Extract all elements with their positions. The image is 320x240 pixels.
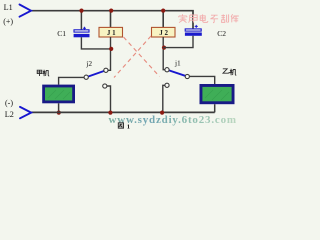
junction dot J2/top rail <box>161 9 165 13</box>
capacitor C2 (electrolytic, blue) <box>185 25 202 36</box>
svg-text:J 2: J 2 <box>159 29 168 37</box>
machine B box (乙机, green) <box>200 84 235 104</box>
junction dot J1/top rail <box>109 9 113 13</box>
svg-text:L1: L1 <box>4 3 13 12</box>
switch j2 lever (blue) <box>88 71 104 77</box>
svg-text:C1: C1 <box>57 29 66 38</box>
svg-text:1: 1 <box>127 123 130 130</box>
junction node B (C2/J2/j1) <box>162 46 166 50</box>
mechanical link J1 to j1 (red dashed) <box>124 37 160 77</box>
wire j1 lower contact to bottom rail <box>163 85 165 112</box>
caption 图 1 (figure 1) drawn glyph <box>118 123 130 130</box>
wire bottom rail (-) from L2 to machine B lead <box>31 111 215 113</box>
wire J2 top lead <box>162 11 164 28</box>
svg-text:L2: L2 <box>5 110 14 119</box>
switch j2 common contact <box>84 75 88 79</box>
terminal L1 (blue chevron) <box>20 5 32 17</box>
svg-text:C2: C2 <box>217 29 226 38</box>
junction dot j2 lower / bottom rail <box>108 111 112 115</box>
machine A box (甲机, green) <box>42 85 75 104</box>
wire J2 bottom lead through node B to switch j1 top contact <box>163 37 165 70</box>
switch j1 top throw contact <box>165 68 169 72</box>
terminal L2 (blue chevron) <box>20 107 31 118</box>
switch j1 lever (blue) <box>169 70 185 75</box>
svg-text:(-): (-) <box>5 99 13 108</box>
switch j1 common contact <box>185 74 189 78</box>
relay coil J1 <box>99 27 123 37</box>
svg-text:J 1: J 1 <box>107 29 116 37</box>
junction dot machine A / bottom rail <box>57 111 61 115</box>
wire top rail (+) from L1 to C2 corner <box>31 11 193 30</box>
wire C1 top lead <box>80 11 82 30</box>
svg-text:j2: j2 <box>85 59 92 68</box>
switch j2 top throw contact <box>104 68 108 72</box>
wire machine A to bottom rail <box>58 103 60 112</box>
switch j2 lower throw contact <box>103 84 107 88</box>
wire j2 common to machine A <box>59 77 85 84</box>
relay coil J2 <box>152 27 176 37</box>
junction dot C1/top rail <box>79 9 83 13</box>
mechanical link J2 to j2 (red dashed) <box>114 36 151 78</box>
label 甲机 (machine A) drawn glyphs <box>37 70 49 76</box>
wire j1 common to machine B <box>189 76 214 84</box>
svg-text:(+): (+) <box>3 17 13 26</box>
switch j1 lower throw contact <box>165 83 169 87</box>
wire C2 bottom lead to node B <box>163 36 193 48</box>
label 乙机 (machine B) drawn glyphs <box>223 69 237 76</box>
wire j2 lower contact to bottom rail <box>107 86 111 112</box>
wire J1 top lead <box>110 11 112 28</box>
capacitor C1 (electrolytic, blue) <box>74 27 90 38</box>
wire J1 bottom lead through node A to switch j2 top contact <box>108 37 111 70</box>
junction node A (C1/J1/j2) <box>109 47 113 51</box>
wire C1 bottom lead to node A <box>81 37 110 49</box>
svg-text:j1: j1 <box>174 58 181 67</box>
wire machine B to bottom rail <box>214 104 216 112</box>
watermark 实用电子制作 (pink) drawn glyphs <box>179 14 239 23</box>
junction dot j1 lower / bottom rail <box>160 111 164 115</box>
